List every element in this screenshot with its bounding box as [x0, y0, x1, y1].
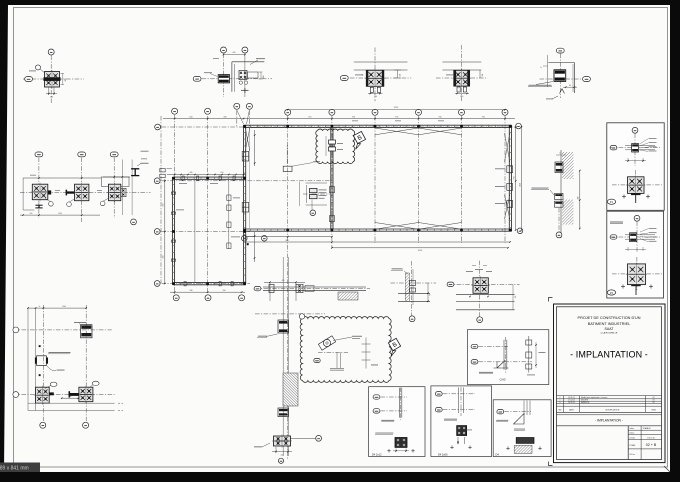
svg-text:150: 150	[482, 74, 484, 77]
svg-text:1500: 1500	[58, 213, 62, 215]
svg-text:1x: 1x	[540, 67, 542, 69]
svg-text:210: 210	[221, 172, 224, 174]
svg-text:SAAT: SAAT	[605, 327, 615, 331]
svg-text:150: 150	[399, 74, 401, 77]
svg-text:750: 750	[514, 176, 516, 179]
svg-text:500: 500	[163, 204, 165, 207]
svg-text:330: 330	[190, 172, 193, 174]
svg-text:PROJET DE CONSTRUCTION D'UN: PROJET DE CONSTRUCTION D'UN	[578, 316, 641, 320]
svg-text:300: 300	[65, 79, 67, 82]
svg-text:240: 240	[374, 96, 377, 98]
svg-text:24.11.03: 24.11.03	[568, 402, 575, 404]
svg-text:1500: 1500	[62, 306, 66, 308]
svg-text:500: 500	[189, 116, 192, 118]
svg-text:750: 750	[352, 116, 355, 118]
svg-text:450: 450	[223, 116, 226, 118]
svg-text:500: 500	[163, 256, 165, 259]
svg-text:CH3: CH3	[499, 377, 505, 381]
svg-text:880: 880	[286, 240, 289, 242]
svg-text:Indice: Indice	[630, 433, 635, 435]
svg-text:500: 500	[30, 213, 33, 215]
svg-text:750: 750	[308, 116, 311, 118]
svg-text:PLAN: PLAN	[630, 444, 636, 447]
svg-text:VISA: VISA	[651, 408, 656, 411]
svg-text:150: 150	[515, 296, 517, 299]
svg-text:1/50 1/10: 1/50 1/10	[647, 437, 655, 439]
svg-text:à LA ROCHELLE: à LA ROCHELLE	[601, 331, 618, 334]
svg-text:1050: 1050	[519, 183, 521, 187]
svg-text:D4 2x12: D4 2x12	[372, 452, 382, 456]
svg-text:2x: 2x	[39, 306, 41, 308]
svg-text:- IMPLANTATION -: - IMPLANTATION -	[595, 419, 623, 423]
svg-text:BATIMENT INDUSTRIEL: BATIMENT INDUSTRIEL	[588, 322, 630, 326]
svg-text:- IMPLANTATION -: - IMPLANTATION -	[570, 350, 648, 360]
svg-text:GT: GT	[652, 402, 654, 404]
svg-text:DATE: DATE	[569, 408, 575, 411]
svg-text:P2: P2	[610, 291, 614, 295]
svg-text:500: 500	[578, 197, 580, 200]
svg-text:MODIFICATION: MODIFICATION	[606, 408, 620, 411]
svg-text:D4 2x06: D4 2x06	[438, 452, 448, 456]
svg-text:Indice: Indice	[630, 428, 635, 430]
svg-text:330: 330	[190, 290, 193, 292]
svg-text:EMISSION: EMISSION	[581, 402, 590, 404]
svg-text:Modification implantation + fe: Modification implantation + ferrures	[581, 396, 607, 399]
svg-text:750: 750	[395, 116, 398, 118]
svg-text:P1: P1	[610, 200, 614, 204]
svg-text:450: 450	[233, 52, 236, 54]
svg-text:TRAVAUX: TRAVAUX	[643, 427, 652, 430]
svg-text:189 x 841 mm: 189 x 841 mm	[0, 466, 29, 472]
svg-text:750: 750	[482, 116, 485, 118]
svg-text:échelle: échelle	[630, 437, 636, 439]
svg-text:240: 240	[281, 455, 284, 457]
svg-text:80: 80	[569, 85, 571, 87]
svg-text:02 + B: 02 + B	[646, 443, 657, 447]
svg-text:330: 330	[223, 290, 226, 292]
svg-text:0: 0	[560, 402, 561, 404]
svg-text:240: 240	[460, 96, 463, 98]
svg-text:240: 240	[50, 97, 53, 99]
svg-text:900: 900	[69, 396, 72, 398]
svg-text:D4: D4	[496, 452, 500, 456]
svg-text:750: 750	[438, 116, 441, 118]
svg-text:N°Dos: N°Dos	[630, 454, 635, 456]
svg-text:200: 200	[263, 76, 265, 79]
svg-text:90: 90	[430, 294, 432, 296]
